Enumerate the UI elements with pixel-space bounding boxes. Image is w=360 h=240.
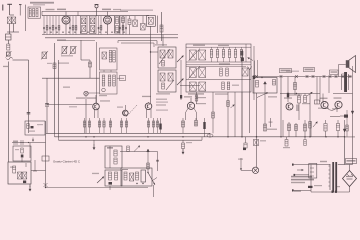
comp on x45 [42,156,49,161]
secondary top wire [338,164,353,166]
long wire x28 [28,60,30,133]
nested rails [118,35,163,47]
heater rail [252,76,352,78]
grid rail A [42,11,128,13]
bus junction dots [85,136,345,138]
wire to filter A [150,51,158,52]
wire lamp feed [256,137,258,167]
trimmer left [41,51,48,60]
tube V2 ECH81 [104,12,112,35]
B+ wire down [351,94,354,165]
output transformer [342,72,349,92]
wire lamp feed upper [256,93,257,138]
tone pot arrow [257,92,268,97]
bias component 2 [88,118,90,133]
labels under trimmers [58,55,73,64]
component black [159,118,161,133]
label AF125 [76,97,96,98]
wire x257 [257,60,259,77]
pot arrow [97,177,104,184]
label T2a [117,107,123,108]
resistor on x54 [53,63,56,69]
left wire tick [180,60,182,100]
title text Graetz Clarinet [53,159,80,163]
selector arrow [297,169,304,171]
coupling arrow 1 [177,56,184,63]
det box left [25,121,45,135]
rail joins [118,41,154,47]
primary feed 2 [294,174,309,176]
block row3 filter [190,82,206,91]
label pins [113,9,121,10]
label small [336,186,340,187]
component [182,118,185,133]
label [186,142,192,143]
label 1M [268,96,277,97]
label EL84 [304,68,315,72]
joint [7,161,9,163]
wire x242 below block [241,92,243,137]
antenna coupling stub [19,5,22,16]
block row1 filter [189,49,206,62]
resistor [298,94,301,121]
bias component 6 [120,118,122,133]
line y93 [280,93,320,94]
wire x213 below block [212,92,215,133]
vol pot black [241,51,244,61]
trimmer mid2 [70,46,77,55]
wire [157,16,159,33]
switch feed wire [147,149,150,173]
trimmer mid [61,46,68,55]
label under rail D [57,39,66,40]
capacitor C5 [27,113,31,114]
tone box D [253,77,277,93]
label AF106 [184,96,192,97]
wire to bottom edge [153,185,155,197]
wire x96 down to T1 [96,42,98,103]
top small labels [120,10,153,11]
label below box B [156,93,170,94]
stub [269,118,273,127]
label 5W box [330,70,339,75]
label 500 [92,173,99,174]
transistor T2a AC [123,105,129,116]
bus B [55,136,345,138]
block row3 components [222,82,239,90]
wire x235 with arrow [231,92,236,137]
wire + arrow + res [264,82,267,132]
res below2 [336,120,339,137]
bus A [46,132,210,134]
lamp symbol [84,91,88,133]
long left rail wire [7,62,9,163]
long wire x54 [54,43,56,134]
wire [254,61,256,78]
label 50Hz [294,191,301,192]
pointer arrow top [248,57,254,60]
box connectors [104,70,111,72]
oval label [207,134,213,137]
bias component 10 [156,118,158,133]
label EABC80 [280,69,292,73]
label 2xB254 [267,129,277,130]
rectifier bridge B250 [343,165,357,193]
coil row [12,138,46,145]
EL84 wire + box [315,77,320,105]
wire ant to coil [25,5,27,31]
bandfilter box B [158,70,176,92]
label small [286,71,299,72]
lamp feed arrow [238,158,252,170]
block row lines [186,44,251,80]
labels right of T3 [196,97,206,104]
label 220 [63,87,70,88]
box lower left [13,146,31,161]
block labels top [193,45,229,47]
label above box A [155,44,167,45]
second feed wire [156,152,159,172]
label AC151 [284,97,292,98]
long bottom wire [45,187,148,189]
transformer terminals [332,191,338,193]
label 455 [37,125,39,126]
transistor T3 AF106 [186,98,197,120]
label ECH81 [57,9,66,11]
transistor T4 (det) [286,103,293,110]
comp blob [330,115,348,118]
lamp to box wire [88,92,100,94]
res below [324,120,327,137]
more bias2 [295,123,298,137]
comp below bus 3 [283,137,290,148]
block row2 components [220,68,248,76]
bus joins [202,133,210,140]
resistor R8 [128,16,131,35]
label AF125 2 [142,96,151,97]
label 220V box [346,159,357,164]
resistor ant [7,40,10,50]
antenna coil L1 [7,17,12,24]
IF transformer T1b [90,16,97,34]
labels under output transistors [318,108,338,110]
wire x228 below block [227,92,229,137]
wire into box [21,158,23,162]
long wire osc [150,26,152,103]
wire x242 [241,50,243,137]
bus joins left [55,134,59,140]
voltage selector [309,164,317,191]
IF box above T1 upper [100,48,118,70]
wire to mixer [13,59,29,61]
wire down [109,186,111,190]
more bias [283,120,291,137]
trimmer C10 [141,16,146,30]
labels right of T2 [156,99,167,106]
block row2 filter [189,66,206,79]
wire x254 [253,46,255,100]
ground bottom left [29,184,32,192]
component comb under rail [43,16,127,35]
rail X mark left [255,75,258,78]
long wire x45 [45,121,47,188]
tube V1 ECH81 [62,12,70,35]
vertical label [296,105,299,112]
chevron [248,67,252,70]
wire x249 [249,70,251,134]
wire x47 [46,78,48,133]
heater wire down [343,120,346,165]
ground res arrow [182,140,185,154]
FM tuner box [28,7,41,18]
label [69,106,77,107]
label ECH81 2 [102,9,111,11]
power transformer [328,162,337,192]
faint line y40 [57,40,95,42]
coil L2 [12,17,16,24]
bandfilter block frame [186,44,251,92]
comp below bus x305 [304,137,306,146]
coupling arrow 2 [177,79,184,86]
block row1 resistors [210,47,243,62]
comp below bus [243,137,247,150]
resistor R7 [122,16,125,35]
bias component 4 [103,118,105,133]
label right [100,100,110,101]
V3 lower comp [287,93,302,98]
block label mid [219,63,230,64]
feedback arrow [307,92,313,96]
wire [328,77,330,94]
stub [33,160,37,171]
bias component 8 [147,118,149,133]
label 6x [345,136,355,137]
osc feed resistor [195,92,198,104]
rail B [42,15,149,17]
wire branch [81,40,92,78]
trimmer [6,51,12,58]
bottom wire [311,191,350,193]
wire x310 [309,94,312,137]
label [156,102,168,103]
switch stub [44,183,48,188]
V3 resistor [294,77,297,96]
label [47,63,52,64]
wire [10,14,14,16]
mains switch [148,173,157,186]
primary feed 1 [292,164,311,166]
bias component 9 [152,118,154,133]
hline 85 [180,86,200,89]
wire [122,168,128,170]
detector cluster box [121,168,152,186]
speaker wires [339,65,353,94]
antenna jack [95,4,99,15]
scale lamp [252,167,258,173]
upper det components [120,146,158,152]
screen components right of V2 [115,16,120,33]
rail y78 [42,77,124,79]
label Netz [320,161,327,162]
gang dashed link [126,105,137,117]
bottom left box [8,162,31,184]
label wellenschalter [30,2,54,6]
antenna stub [2,5,4,11]
ground arrow mid [93,140,96,150]
pot box lower [105,170,122,186]
wires to T5 [320,77,323,104]
primary feed 3 [292,189,311,191]
label below box [99,95,107,96]
base feed line [47,104,93,106]
transistor T1 AF125 [93,95,100,118]
wire [7,24,19,35]
AGC wire + resistor [160,12,163,41]
bandfilter box A [158,47,176,68]
wire jog [77,12,79,16]
label [46,9,55,10]
input box [6,34,12,40]
line y93 right [333,93,353,95]
V3 wire2 [287,77,289,103]
V3 wire [280,78,282,137]
IF transformer T1 [81,16,88,34]
transistor T2 AF125 [145,102,152,118]
wire [29,143,31,159]
tick [3,66,8,67]
component black 2 [203,118,205,137]
resistor 2 [302,94,310,105]
bias component 1 [83,118,85,133]
wire right [31,170,46,172]
cathode rail C [42,34,178,36]
antenna A1 [7,4,12,15]
bias component 3 [98,118,100,133]
label AC153 2 [334,97,342,98]
bias component 7 [125,118,127,133]
oscillator coil box [147,16,156,27]
left rail join [41,11,43,15]
label2 [156,110,168,111]
electrolytic C20 [45,104,49,107]
bias component 5 [109,118,111,133]
primary top wire [311,164,330,166]
cap 0.1u [308,185,322,192]
speaker [346,56,356,73]
trimmer C9 [133,16,138,27]
bus C [59,139,203,141]
junction marks row [44,32,125,33]
component [195,118,198,126]
small box right of rail [120,76,126,81]
rail D [45,37,178,39]
IF box above T1 lower [100,72,118,94]
comp below bus 2 [254,140,267,146]
labels below block [188,93,228,95]
long wire x58 [58,60,60,138]
svg-text:Graetz-Clarinet 4D C: Graetz-Clarinet 4D C [53,159,80,163]
coil bumps [7,57,13,60]
wire x347 [346,110,348,137]
elco box 50u [105,146,122,168]
label AC153 [320,98,328,99]
tube pin X marks [280,75,352,78]
output transistors T5 T6 [321,101,342,108]
text Wechselstrom block [291,176,314,183]
lead curve [327,108,337,113]
more bias3 [304,120,307,137]
bias pot arrow [311,121,318,137]
